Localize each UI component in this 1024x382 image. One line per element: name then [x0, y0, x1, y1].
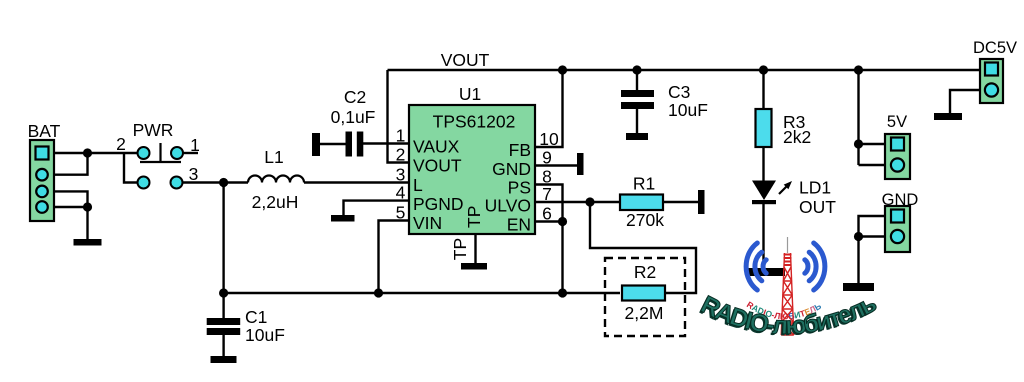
svg-text:3: 3 — [396, 165, 406, 185]
svg-text:R2: R2 — [634, 262, 656, 282]
node switch output — [219, 178, 228, 187]
LED arrow — [779, 181, 792, 194]
svg-text:OUT: OUT — [799, 197, 836, 217]
ground bar DC5V — [934, 113, 962, 120]
wire PWR pole drop — [124, 153, 138, 183]
svg-text:VOUT: VOUT — [413, 156, 462, 176]
capacitor C3 — [621, 90, 654, 109]
svg-text:10: 10 — [539, 129, 559, 149]
svg-text:270k: 270k — [626, 210, 664, 230]
wire 5V branch — [859, 70, 886, 165]
wire C2 left lead — [320, 143, 347, 145]
wire R3 top lead — [762, 70, 764, 109]
connector DC5V — [980, 59, 1003, 103]
node FB VOUT — [558, 65, 567, 74]
svg-text:3: 3 — [189, 164, 199, 184]
svg-text:TP: TP — [450, 238, 470, 260]
svg-text:L1: L1 — [264, 147, 283, 167]
wire R3 to LED — [762, 147, 764, 181]
wire pin 10 FB up to rail — [535, 70, 563, 147]
wire ULVO to R2 — [590, 202, 696, 293]
wire pin 4 to ground — [344, 201, 410, 215]
wire pin 8 PS down to rail — [535, 185, 563, 294]
connector BAT — [30, 140, 54, 221]
svg-text:9: 9 — [542, 148, 552, 168]
node EN rail — [558, 288, 567, 297]
svg-text:2,2M: 2,2M — [625, 303, 664, 323]
wire BAT pin2 up to node — [48, 153, 88, 175]
wire VOUT drop to pin 2 — [388, 70, 410, 163]
node EN pin6 — [558, 217, 567, 226]
svg-text:VIN: VIN — [413, 213, 442, 233]
node BAT plus — [83, 148, 92, 157]
svg-text:7: 7 — [542, 184, 552, 204]
ground bar C1 — [211, 356, 237, 363]
svg-text:DC5V: DC5V — [973, 39, 1017, 57]
wire BAT ground drop — [86, 207, 88, 239]
ground bar BAT — [74, 239, 102, 246]
test point TP pad — [461, 263, 487, 270]
logo watermark radio arcs right — [805, 243, 825, 290]
node R3 — [759, 65, 768, 74]
svg-text:2k2: 2k2 — [783, 127, 811, 147]
capacitor C2 — [312, 132, 363, 157]
wire BAT pin3 down — [48, 191, 88, 207]
svg-text:C3: C3 — [668, 82, 690, 102]
wire L1 to pin 3 — [304, 181, 409, 183]
svg-text:TP: TP — [464, 206, 484, 228]
svg-text:10uF: 10uF — [245, 325, 285, 345]
logo watermark tower — [781, 237, 794, 335]
IC U1 TPS61202 — [409, 105, 535, 234]
svg-text:EN: EN — [507, 215, 531, 235]
svg-text:GND: GND — [882, 191, 919, 209]
svg-text:TPS61202: TPS61202 — [433, 112, 516, 132]
connector GND — [885, 206, 910, 252]
wire bottom rail VIN — [224, 292, 620, 294]
svg-text:VOUT: VOUT — [441, 50, 490, 70]
wire LED to ground — [762, 204, 764, 268]
resistor R1 — [620, 195, 663, 211]
svg-text:1: 1 — [396, 126, 406, 146]
wire pin 6 EN — [535, 220, 563, 222]
resistor R2 — [622, 286, 665, 301]
svg-text:C1: C1 — [245, 307, 267, 327]
wire C1 bottom lead — [222, 335, 224, 356]
svg-text:ULVO: ULVO — [485, 196, 531, 216]
node C3 — [632, 65, 641, 74]
wire BAT pin1 to PWR — [48, 152, 138, 154]
wire pin 7 ULVO to R1 — [535, 201, 620, 203]
svg-text:VAUX: VAUX — [413, 137, 460, 157]
svg-text:U1: U1 — [459, 84, 481, 104]
wire node to bottom rail — [222, 183, 224, 294]
svg-text:2: 2 — [396, 145, 406, 165]
wire pin 9 GND — [535, 164, 577, 166]
svg-text:1: 1 — [190, 135, 200, 155]
node 5V branch — [854, 65, 863, 74]
node VIN rail left — [219, 288, 228, 297]
ground bar R1 — [698, 190, 705, 214]
wire C1 top lead — [222, 293, 224, 318]
svg-text:5: 5 — [396, 203, 406, 223]
LED cathode bar — [752, 200, 776, 204]
svg-text:6: 6 — [542, 204, 552, 224]
svg-text:BAT: BAT — [28, 121, 61, 141]
resistor R3 — [756, 109, 772, 147]
logo watermark radio arcs left — [746, 243, 766, 290]
svg-text:0,1uF: 0,1uF — [331, 107, 376, 127]
wire C2 to pin 1 — [362, 142, 409, 144]
ground bar GND connector — [843, 283, 874, 291]
switch PWR — [138, 147, 184, 189]
svg-text:LD1: LD1 — [799, 178, 831, 198]
svg-text:2,2uH: 2,2uH — [252, 192, 299, 212]
wire GND connector branch — [859, 216, 886, 283]
node ULVO — [585, 197, 594, 206]
ground bar pin 9 — [577, 153, 584, 175]
svg-text:PWR: PWR — [133, 120, 174, 140]
wire pin 5 to bottom rail — [379, 221, 410, 294]
wire TP lead — [474, 234, 476, 263]
svg-text:R1: R1 — [633, 174, 655, 194]
svg-text:FB: FB — [509, 140, 531, 160]
switch PWR actuator — [140, 143, 181, 162]
wire C3 bottom lead — [636, 109, 638, 133]
connector 5V — [885, 134, 910, 179]
inductor L1 — [248, 176, 304, 183]
ground bar C3 — [626, 133, 648, 140]
node VIN pin5 — [374, 288, 383, 297]
svg-text:PS: PS — [508, 178, 531, 198]
svg-text:5V: 5V — [887, 113, 907, 131]
svg-text:4: 4 — [396, 183, 406, 203]
ground bar LED — [746, 268, 785, 276]
node BAT minus — [83, 202, 92, 211]
capacitor C1 — [207, 318, 241, 335]
svg-text:L: L — [413, 175, 423, 195]
dashed optional box R2 — [605, 258, 685, 336]
svg-text:PGND: PGND — [413, 194, 464, 214]
wire R1 right lead — [663, 201, 698, 203]
svg-text:10uF: 10uF — [668, 100, 708, 120]
node 5V pin — [854, 139, 863, 148]
ground bar pin4 PGND — [331, 215, 355, 222]
wire top rail VOUT — [388, 69, 981, 71]
wire C3 top lead — [636, 70, 638, 90]
node GND pin — [854, 232, 863, 241]
wire PWR terminal 3 to L1 — [182, 181, 248, 183]
svg-text:GND: GND — [492, 159, 531, 179]
wire DC5V circle pin to ground — [950, 90, 980, 113]
LED LD1 — [752, 181, 776, 201]
wire PWR terminal 1 stub — [183, 152, 198, 154]
wire BAT pin4 — [48, 206, 88, 208]
svg-text:2: 2 — [116, 134, 126, 154]
svg-text:C2: C2 — [344, 87, 366, 107]
